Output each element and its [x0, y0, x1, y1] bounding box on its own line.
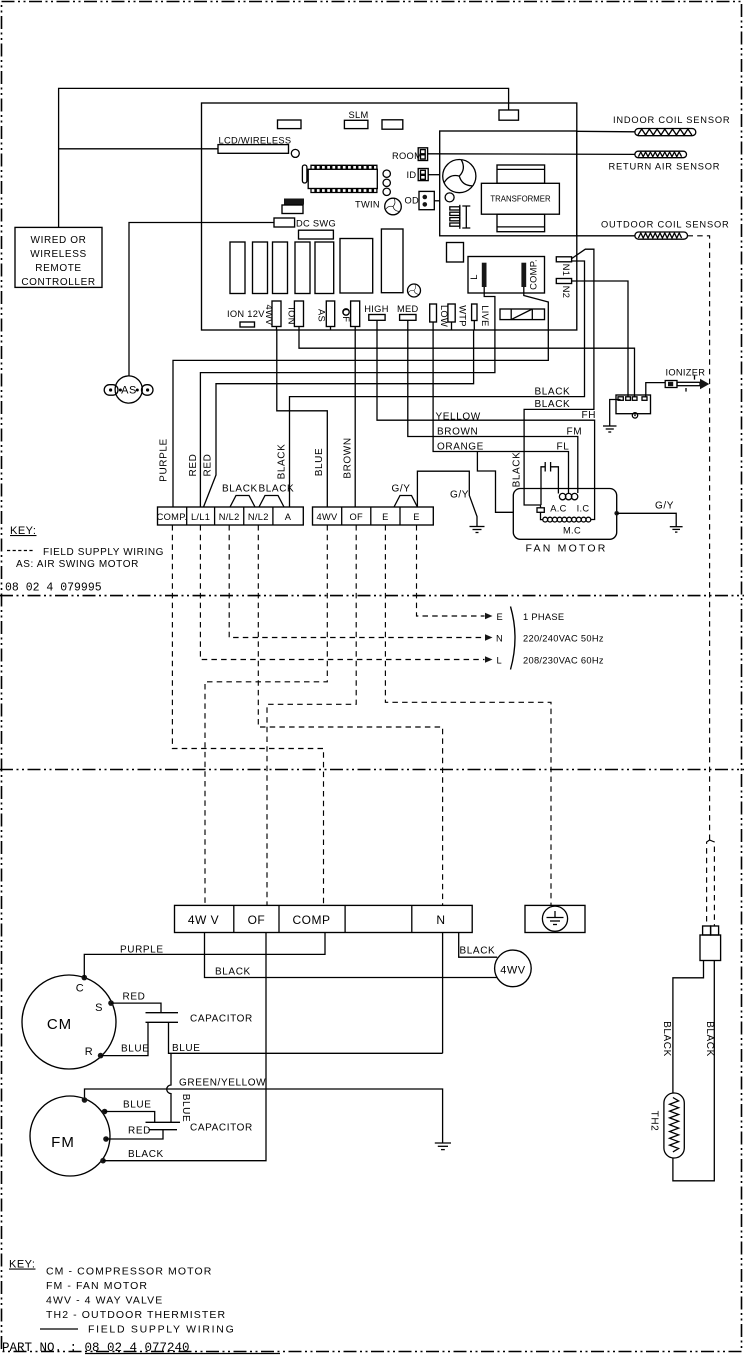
- large box on PCB: [381, 229, 403, 293]
- svg-text:CM: CM: [47, 1016, 72, 1033]
- svg-text:FM - FAN MOTOR: FM - FAN MOTOR: [46, 1280, 148, 1292]
- svg-text:BLACK: BLACK: [222, 484, 258, 495]
- field wiring: L/L1 to L arrow: [200, 525, 484, 660]
- svg-text:CAPACITOR: CAPACITOR: [190, 1123, 253, 1134]
- N2 connector: [556, 279, 571, 284]
- svg-text:BLACK: BLACK: [512, 452, 523, 488]
- wire HIGH to fan FH (YELLOW): [377, 330, 595, 520]
- five tall connector rects on PCB: [230, 242, 245, 294]
- svg-text:C: C: [76, 983, 84, 995]
- svg-text:A: A: [285, 512, 292, 522]
- svg-text:BLACK: BLACK: [661, 1021, 672, 1057]
- svg-text:REMOTE: REMOTE: [35, 263, 81, 274]
- wire LIVE connector to L/L1 terminal (RED 2): [204, 330, 474, 507]
- svg-text:BLACK: BLACK: [460, 946, 496, 957]
- LIVE relay box with diagonal: [500, 309, 545, 320]
- svg-text:FAN MOTOR: FAN MOTOR: [525, 543, 607, 555]
- svg-text:220/240VAC 50Hz: 220/240VAC 50Hz: [523, 634, 604, 644]
- field wiring: COMP terminal to outdoor COMP: [172, 525, 323, 905]
- svg-text:SLM: SLM: [349, 110, 369, 120]
- svg-text:WIRELESS: WIRELESS: [30, 249, 86, 260]
- wire 4WV connector to 4WV terminal (BLUE): [277, 330, 328, 507]
- svg-text:YELLOW: YELLOW: [436, 412, 481, 423]
- tiny hole circle: [343, 309, 349, 315]
- TH2 wire left (BLACK): [673, 961, 704, 1094]
- svg-text:BLACK: BLACK: [704, 1021, 715, 1057]
- svg-text:OF: OF: [248, 913, 266, 927]
- svg-text:E: E: [497, 612, 504, 622]
- svg-text:FH: FH: [582, 410, 597, 421]
- wire OF connector to OF terminal (BROWN): [354, 330, 356, 507]
- svg-text:4W V: 4W V: [188, 913, 219, 927]
- svg-text:G/Y: G/Y: [450, 490, 469, 501]
- svg-text:N1: N1: [561, 264, 571, 276]
- svg-text:KEY:: KEY:: [9, 1259, 35, 1271]
- svg-text:COMP.: COMP.: [529, 259, 539, 290]
- three circles right of IC: [383, 170, 390, 177]
- N1 connector: [556, 257, 571, 262]
- svg-text:N/L2: N/L2: [219, 512, 240, 522]
- RED wire FM to capacitor: [106, 1130, 163, 1139]
- field wiring: 4WV to outdoor 4WV: [205, 525, 327, 905]
- svg-text:OF: OF: [341, 309, 351, 323]
- svg-text:N: N: [496, 634, 503, 644]
- G/Y trapezoid into E-E: [394, 496, 417, 508]
- BLUE wire FM to capacitor: [105, 1112, 155, 1123]
- IC chip U1: [308, 165, 377, 192]
- svg-text:RED: RED: [203, 454, 214, 477]
- svg-text:I.C: I.C: [577, 504, 590, 514]
- field wiring: N/L2 to outdoor N: [258, 525, 442, 905]
- svg-text:BLUE: BLUE: [123, 1100, 152, 1111]
- svg-text:RED: RED: [128, 1126, 151, 1137]
- 4WV valve circle: [495, 950, 532, 987]
- field wiring: N/L2 to N arrow: [229, 525, 484, 638]
- wire ionizer board pad1 to ground: [610, 400, 621, 427]
- arrow E: [485, 613, 493, 620]
- svg-text:ID: ID: [407, 170, 417, 180]
- svg-text:N/L2: N/L2: [248, 512, 269, 522]
- AS air swing motor: [104, 376, 153, 403]
- wire indoor coil sensor: [577, 130, 635, 133]
- svg-text:DC SWG: DC SWG: [296, 218, 336, 228]
- inner sensor sub-board box: [440, 131, 577, 236]
- svg-text:4WV: 4WV: [316, 512, 338, 522]
- wire DC SWG to AS motor: [129, 223, 274, 376]
- svg-text:BLACK: BLACK: [259, 484, 295, 495]
- svg-text:BLUE: BLUE: [314, 448, 325, 477]
- SLM rect: [344, 120, 368, 128]
- svg-text:BLACK: BLACK: [277, 444, 288, 480]
- svg-text:BROWN: BROWN: [343, 437, 354, 478]
- wire lug to M.C coil: [541, 512, 543, 519]
- N wire from terminal: [442, 933, 444, 1054]
- svg-text:ORANGE: ORANGE: [437, 441, 484, 452]
- svg-text:BLACK: BLACK: [215, 967, 251, 978]
- TWIN fan circle: [385, 198, 402, 215]
- svg-text:INDOOR COIL SENSOR: INDOOR COIL SENSOR: [613, 115, 730, 125]
- jumper trapezoid N/L2-N/L2: [230, 496, 255, 508]
- rect component top-left: [278, 120, 302, 129]
- svg-text:A.C: A.C: [550, 504, 566, 514]
- DC SWG connector: [274, 218, 295, 227]
- svg-text:MED: MED: [397, 304, 419, 314]
- terminal strip 1: COMP. L/L1 N/L2 N/L2 A: [157, 507, 304, 525]
- rect below DC SWG: [299, 230, 334, 239]
- svg-text:FM: FM: [567, 426, 583, 437]
- svg-text:OUTDOOR COIL SENSOR: OUTDOOR COIL SENSOR: [601, 220, 730, 230]
- arrow L: [485, 656, 493, 663]
- field wiring: OF to outdoor OF: [267, 525, 356, 905]
- svg-text:M.C: M.C: [563, 526, 581, 536]
- divider indoor/field zone: [0, 595, 744, 597]
- svg-text:BLUE: BLUE: [121, 1044, 150, 1055]
- KEY legend indoor: [7, 525, 164, 570]
- svg-text:WTP: WTP: [458, 305, 468, 327]
- outline rect above DC SWG: [282, 205, 303, 214]
- ionizer board: [616, 395, 651, 418]
- svg-text:S: S: [95, 1002, 103, 1014]
- ID connector: [418, 169, 428, 181]
- ionizer electrode symbol: [665, 376, 709, 392]
- phase brace: [511, 607, 516, 670]
- TH2 wire right (BLACK): [673, 961, 714, 1181]
- small pill left of IC: [302, 165, 307, 183]
- svg-text:L/L1: L/L1: [191, 512, 210, 522]
- wire N1 via right column to A.C lug (BLACK): [524, 249, 594, 508]
- svg-text:AS: AS: [121, 385, 137, 397]
- svg-text:OD: OD: [405, 195, 420, 205]
- wire remote to PCB top connector: [59, 88, 509, 227]
- GREEN/YELLOW earth wire: [85, 1089, 443, 1143]
- OD connector: [419, 191, 434, 209]
- field wiring: E to E arrow: [417, 525, 485, 616]
- wire COMP relay to COMP terminal (PURPLE): [173, 287, 548, 507]
- CM compressor motor circle: [22, 975, 116, 1069]
- ground at E wire: [470, 527, 485, 533]
- wire E terminal earth loop: [417, 471, 477, 526]
- svg-text:BROWN: BROWN: [437, 426, 478, 437]
- wire L relay to L/L1 terminal (RED): [200, 287, 495, 507]
- ground outdoor earth: [435, 1143, 451, 1150]
- M.C main coil: [543, 517, 591, 522]
- svg-text:L: L: [497, 656, 502, 666]
- wire to fan motor frame: [477, 452, 513, 513]
- svg-text:COMP.: COMP.: [157, 512, 188, 522]
- BLACK wire 4WV terminal to 4WV valve: [205, 933, 498, 978]
- BLACK wire N terminal to 4WV valve: [459, 933, 498, 958]
- medium box on PCB: [340, 239, 373, 294]
- heatsink symbol: [450, 205, 471, 229]
- LCD/WIRELESS rect: [218, 145, 289, 154]
- circle by LCD rect: [291, 149, 299, 157]
- wire MED to fan FM (BROWN): [408, 330, 578, 493]
- wire outdoor coil sensor: [577, 235, 635, 237]
- wire ION connector to ionizer board pad3: [299, 330, 635, 397]
- OD wire: [434, 200, 439, 202]
- KEY legend outdoor: [9, 1259, 235, 1336]
- divider outdoor unit top: [0, 769, 744, 771]
- ground under ionizer board: [603, 426, 617, 432]
- svg-text:TH2 - OUTDOOR THERMISTER: TH2 - OUTDOOR THERMISTER: [46, 1309, 226, 1321]
- svg-text:PURPLE: PURPLE: [120, 945, 164, 956]
- fan capacitor: [541, 462, 558, 505]
- svg-text:RETURN AIR SENSOR: RETURN AIR SENSOR: [609, 162, 721, 172]
- TH2 thermistor capsule: [664, 1093, 684, 1158]
- small circle below fan: [445, 193, 454, 202]
- svg-text:G/Y: G/Y: [392, 484, 411, 495]
- ROOM connector: [418, 148, 427, 161]
- svg-text:RED: RED: [188, 454, 199, 477]
- svg-text:HIGH: HIGH: [364, 304, 388, 314]
- PURPLE wire C to COMP terminal: [84, 933, 325, 978]
- arrow N: [485, 634, 493, 641]
- svg-text:08 02 4 079995: 08 02 4 079995: [5, 582, 102, 595]
- svg-text:ION 12V: ION 12V: [227, 309, 265, 319]
- svg-text:CM - COMPRESSOR MOTOR: CM - COMPRESSOR MOTOR: [46, 1266, 212, 1278]
- fan motor box: [513, 489, 616, 540]
- svg-text:TWIN: TWIN: [355, 200, 380, 210]
- svg-text:IONIZER: IONIZER: [666, 368, 706, 378]
- svg-text:AS: AS: [317, 309, 327, 322]
- FM fan motor circle: [30, 1096, 110, 1176]
- svg-text:BLACK: BLACK: [535, 387, 571, 398]
- BLACK wire FM to OF terminal: [103, 933, 266, 1161]
- CM capacitor: [146, 1013, 179, 1023]
- svg-text:TH2: TH2: [649, 1111, 660, 1132]
- wire return air sensor: [428, 153, 635, 156]
- svg-text:FIELD SUPPLY WIRING: FIELD SUPPLY WIRING: [43, 547, 164, 558]
- outdoor terminal block: [175, 905, 473, 932]
- svg-text:RED: RED: [123, 992, 146, 1003]
- svg-text:BLUE: BLUE: [180, 1094, 191, 1123]
- BLUE wire capacitor to N: [169, 1022, 443, 1053]
- svg-text:GREEN/YELLOW: GREEN/YELLOW: [179, 1078, 266, 1089]
- junction dot fan motor right: [614, 511, 619, 516]
- connector rect (remote wire target): [499, 110, 519, 120]
- outdoor earth terminal box: [525, 905, 585, 932]
- svg-text:AS: AIR SWING MOTOR: AS: AIR SWING MOTOR: [16, 559, 139, 570]
- WTP connector: [448, 304, 455, 322]
- wire pad4 to ionizer electrode: [646, 383, 665, 397]
- svg-text:1 PHASE: 1 PHASE: [523, 612, 564, 622]
- BLUE wire R to capacitor: [101, 1022, 148, 1055]
- I.C coil: [559, 493, 577, 499]
- svg-text:BLACK: BLACK: [535, 399, 571, 410]
- svg-text:L: L: [469, 274, 479, 279]
- svg-text:FIELD SUPPLY WIRING: FIELD SUPPLY WIRING: [88, 1324, 235, 1336]
- indoor coil sensor thermistor: [635, 129, 696, 136]
- svg-text:FM: FM: [51, 1134, 75, 1151]
- svg-text:CONTROLLER: CONTROLLER: [21, 277, 95, 288]
- svg-text:FL: FL: [557, 441, 570, 452]
- svg-text:R: R: [85, 1046, 93, 1058]
- PCB main board box: [202, 103, 577, 330]
- RED wire S to capacitor: [111, 1003, 161, 1013]
- svg-text:LIVE: LIVE: [480, 305, 490, 326]
- svg-text:G/Y: G/Y: [655, 501, 674, 512]
- outdoor coil sensor thermistor: [635, 232, 688, 239]
- svg-text:N2: N2: [561, 286, 571, 298]
- svg-text:TRANSFORMER: TRANSFORMER: [490, 195, 551, 204]
- svg-text:4WV: 4WV: [500, 965, 526, 977]
- dashed wire outdoor sensor to TH2: [688, 236, 710, 840]
- svg-text:N: N: [436, 913, 445, 927]
- svg-text:CAPACITOR: CAPACITOR: [190, 1014, 253, 1025]
- TH2 connector plug: [700, 926, 721, 961]
- wire N2 to ionizer board pad2: [572, 281, 628, 397]
- svg-text:OF: OF: [349, 512, 363, 522]
- small fan circle lower: [408, 284, 421, 297]
- ID wire: [428, 174, 440, 176]
- remote controller box: [15, 227, 102, 288]
- BLUE drop wire N to FM capacitor with hop: [167, 1053, 171, 1122]
- jumper trapezoid N/L2-A: [259, 496, 284, 508]
- G/Y wire fan motor to ground: [617, 513, 677, 526]
- fan motor symbol circle on PCB: [443, 160, 476, 193]
- svg-text:PURPLE: PURPLE: [159, 438, 170, 482]
- underline under part number: [85, 1353, 280, 1355]
- terminal strip 2: 4WV OF E E: [313, 507, 434, 525]
- wire LOW to fan FL (ORANGE): [433, 330, 568, 493]
- A.C lug: [537, 508, 544, 513]
- FM capacitor: [146, 1122, 181, 1129]
- svg-text:BLUE: BLUE: [172, 1043, 201, 1054]
- svg-text:COMP: COMP: [293, 913, 331, 927]
- return air sensor thermistor: [635, 151, 687, 158]
- FM top dot to G/Y wire: [84, 1099, 86, 1100]
- svg-text:E: E: [382, 512, 389, 522]
- wire remote to LCD/WIRELESS: [59, 148, 218, 150]
- TH2 dashed leads: [707, 840, 710, 926]
- LOW connector: [430, 304, 437, 322]
- transformer T1: [481, 165, 559, 232]
- ground at fan motor G/Y: [670, 527, 683, 532]
- filled connector bar above DC SWG: [284, 199, 304, 205]
- rect below heatsink: [447, 243, 464, 263]
- connector stubs to PCB edge: [277, 320, 475, 330]
- relay box with L and COMP coils: [468, 257, 545, 294]
- rect component top-right: [382, 120, 403, 129]
- svg-text:4WV - 4 WAY VALVE: 4WV - 4 WAY VALVE: [46, 1295, 163, 1307]
- LIVE connector: [472, 304, 477, 321]
- svg-text:KEY:: KEY:: [10, 525, 36, 537]
- svg-text:BLACK: BLACK: [128, 1149, 164, 1160]
- svg-text:WIRED OR: WIRED OR: [31, 235, 87, 246]
- wire N1 to A terminal (BLACK): [290, 261, 585, 507]
- svg-text:208/230VAC 60Hz: 208/230VAC 60Hz: [523, 656, 604, 666]
- svg-text:E: E: [413, 512, 420, 522]
- field wiring: E to outdoor earth: [385, 525, 551, 905]
